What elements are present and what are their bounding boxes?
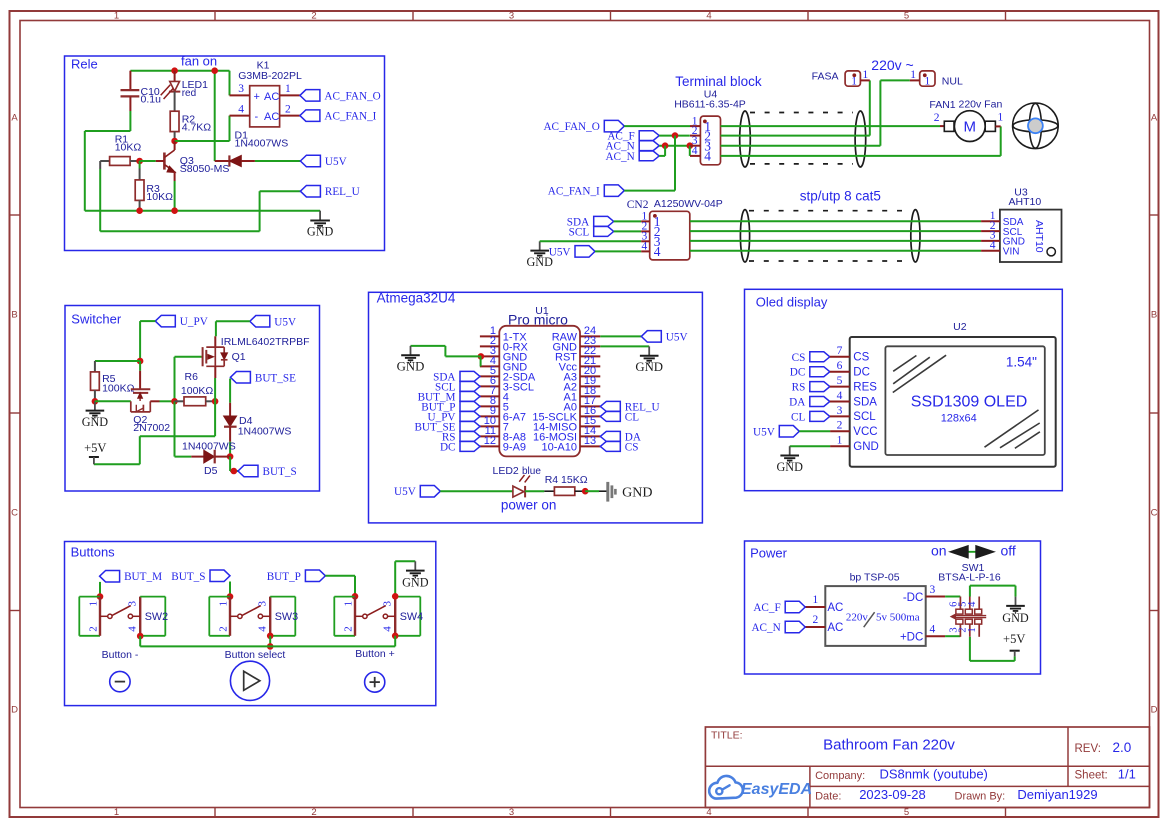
wire: -DC to SW1 <box>945 596 960 598</box>
svg-text:4: 4 <box>704 149 711 164</box>
wire: SDA to CN2 pin1 <box>614 220 642 222</box>
svg-text:CS: CS <box>853 352 869 364</box>
button icon minus <box>110 671 130 691</box>
svg-text:100KΩ: 100KΩ <box>181 385 214 397</box>
svg-text:10KΩ: 10KΩ <box>146 191 173 203</box>
svg-text:VIN: VIN <box>1003 247 1020 258</box>
resistor R1 <box>100 133 141 165</box>
svg-text:2.0: 2.0 <box>1113 740 1132 755</box>
svg-text:5v 500ma: 5v 500ma <box>876 611 920 623</box>
svg-text:4: 4 <box>692 145 698 157</box>
port BUT_M of Buttons <box>100 570 120 582</box>
svg-text:1/1: 1/1 <box>1118 766 1136 781</box>
wire: SCL to CN2 pin2 <box>614 230 642 232</box>
port SCL of CN2 <box>594 226 614 236</box>
svg-text:2N7002: 2N7002 <box>133 422 170 434</box>
resistor R6 <box>175 371 219 406</box>
svg-text:GND: GND <box>82 415 109 429</box>
svg-text:GND: GND <box>402 575 429 589</box>
svg-text:Atmega32U4: Atmega32U4 <box>377 291 456 306</box>
svg-text:-DC: -DC <box>903 592 923 604</box>
port AC_F of Power <box>785 601 805 613</box>
wire: R5 to Q2 gate <box>95 400 131 402</box>
svg-text:1: 1 <box>967 627 978 632</box>
svg-text:B: B <box>1151 310 1157 321</box>
svg-text:1: 1 <box>837 435 843 447</box>
wire: CN2 pin3 to U3 GND <box>690 240 981 242</box>
button icon plus <box>365 672 385 692</box>
node: R5 bottom junction <box>92 398 99 405</box>
svg-text:D: D <box>11 705 18 716</box>
svg-text:Demiyan1929: Demiyan1929 <box>1017 787 1097 802</box>
svg-text:220v Fan: 220v Fan <box>959 98 1003 110</box>
port CL of U2 <box>810 411 830 421</box>
svg-text:4: 4 <box>642 241 648 253</box>
port AC_FAN_I feed <box>604 185 624 197</box>
wire: GND pin of U2 <box>790 445 830 447</box>
svg-text:Bathroom Fan 220v: Bathroom Fan 220v <box>823 736 955 753</box>
svg-text:CL: CL <box>625 411 639 423</box>
svg-text:U5V: U5V <box>325 156 347 168</box>
svg-text:+: + <box>254 91 260 103</box>
wire: U_PV to Q2 drain <box>137 321 156 371</box>
wire: AC_FAN_I riser <box>674 136 676 191</box>
transistor Q1 <box>203 336 310 378</box>
port DC of U1 <box>460 441 480 451</box>
svg-text:AC: AC <box>827 602 843 614</box>
transistor Q2 <box>131 371 170 434</box>
svg-text:BTSA-L-P-16: BTSA-L-P-16 <box>938 572 1001 584</box>
svg-text:3: 3 <box>509 11 514 22</box>
svg-text:CS: CS <box>625 441 639 453</box>
wire: U1 GND pins to ground <box>411 346 485 367</box>
svg-text:3: 3 <box>238 83 244 95</box>
wire: U5V to LED2 <box>440 490 512 492</box>
power +5V of Power <box>1003 632 1025 656</box>
svg-text:13: 13 <box>584 435 596 447</box>
svg-text:DC: DC <box>790 367 806 379</box>
port RS of U2 <box>810 382 830 392</box>
wire: AC_N to U4 pin3 <box>659 142 693 156</box>
svg-text:Button select: Button select <box>225 649 286 661</box>
svg-text:A: A <box>11 113 18 124</box>
wire: D5 anode <box>175 456 192 458</box>
svg-text:AC_FAN_I: AC_FAN_I <box>324 111 376 123</box>
wire: D1 to U5V <box>255 160 301 162</box>
port U5V of U2 <box>779 426 799 438</box>
port CS of U2 <box>810 352 830 362</box>
port U5V of power-on row <box>420 485 440 497</box>
svg-text:GND: GND <box>635 360 663 374</box>
svg-text:2: 2 <box>311 807 316 818</box>
cable sheath cat5 <box>740 210 920 262</box>
Switcher block frame <box>65 306 320 492</box>
svg-text:CS: CS <box>792 352 806 364</box>
svg-text:red: red <box>182 88 196 99</box>
svg-text:A1250WV-04P: A1250WV-04P <box>654 198 723 210</box>
switch SW4 <box>334 597 423 636</box>
svg-text:4.7KΩ: 4.7KΩ <box>182 121 212 133</box>
svg-text:220v: 220v <box>846 611 869 623</box>
resistor R4 <box>544 474 588 495</box>
svg-text:CN2: CN2 <box>627 199 649 211</box>
svg-text:Date:: Date: <box>815 790 841 802</box>
port BUT_S of Buttons <box>210 570 230 582</box>
connector U4 <box>674 89 746 165</box>
LED LED2 <box>493 465 545 497</box>
port SCL of U1 <box>460 381 480 391</box>
port DC of U2 <box>810 367 830 377</box>
fan icon <box>1013 103 1059 149</box>
port DA of U2 <box>810 397 830 407</box>
port U5V of CN2 <box>575 246 595 258</box>
ground GND of Buttons <box>414 561 416 570</box>
wire: Q3 emitter to gnd bus <box>174 181 176 211</box>
svg-text:1: 1 <box>114 807 119 818</box>
svg-text:AC_N: AC_N <box>751 622 780 634</box>
svg-text:U5V: U5V <box>753 426 775 438</box>
svg-text:Switcher: Switcher <box>71 312 122 327</box>
port AC_FAN_O feed <box>604 120 624 132</box>
switch SW1 <box>938 562 1001 637</box>
port AC_FAN_O of Rele <box>300 90 320 102</box>
display module U2 <box>837 321 1056 467</box>
svg-text:+DC: +DC <box>900 631 923 643</box>
wire: SW1 pin2 to +5V <box>970 637 1015 661</box>
svg-text:S8050-MS: S8050-MS <box>180 163 230 175</box>
svg-text:BUT_S: BUT_S <box>263 466 297 478</box>
svg-text:3: 3 <box>837 405 843 417</box>
svg-text:1: 1 <box>998 112 1004 124</box>
Buttons block frame <box>65 542 436 706</box>
svg-text:9-A9: 9-A9 <box>503 441 526 453</box>
svg-text:B: B <box>11 310 17 321</box>
svg-text:3: 3 <box>509 807 514 818</box>
svg-text:220v ~: 220v ~ <box>871 57 913 73</box>
resistor R3 <box>135 161 173 211</box>
svg-text:Oled display: Oled display <box>756 295 828 310</box>
cable sheath 220v <box>740 111 866 167</box>
svg-text:+5V: +5V <box>84 441 106 455</box>
svg-text:1: 1 <box>851 76 857 88</box>
svg-text:1: 1 <box>813 594 819 606</box>
port BUT_P of Buttons <box>305 570 325 582</box>
wire: U4 pin3 to NUL <box>721 80 910 145</box>
svg-text:fan on: fan on <box>181 54 217 69</box>
ground GND of Switcher <box>94 401 96 410</box>
svg-text:BUT_S: BUT_S <box>171 571 205 583</box>
svg-text:U2: U2 <box>953 321 967 333</box>
svg-text:4: 4 <box>967 601 978 607</box>
svg-text:1: 1 <box>114 11 119 22</box>
svg-text:5: 5 <box>904 11 909 22</box>
svg-text:U5V: U5V <box>666 331 688 343</box>
svg-text:4: 4 <box>990 240 996 252</box>
svg-text:2: 2 <box>311 11 316 22</box>
svg-text:1: 1 <box>218 601 230 607</box>
svg-text:2: 2 <box>218 626 230 632</box>
svg-text:Terminal block: Terminal block <box>675 74 762 89</box>
port RS of U1 <box>460 431 480 441</box>
svg-text:IRLML6402TRPBF: IRLML6402TRPBF <box>221 336 310 348</box>
connector NUL <box>910 69 963 88</box>
svg-text:power on: power on <box>501 498 557 513</box>
svg-text:1: 1 <box>343 601 355 607</box>
wire: SW2 pin4 to bus <box>137 633 144 647</box>
svg-text:1.54": 1.54" <box>1006 354 1037 369</box>
port DA of U1 <box>600 431 620 441</box>
svg-text:on: on <box>931 543 947 559</box>
port U_PV of Switcher <box>155 315 175 327</box>
svg-text:AHT10: AHT10 <box>1009 196 1042 208</box>
Power block frame <box>745 541 1041 674</box>
wire: gnd to CN2 pin3 <box>540 240 642 242</box>
wire: SW4 gnd link <box>392 561 415 599</box>
port BUT_SE of U1 <box>460 421 480 431</box>
svg-text:Buttons: Buttons <box>71 544 116 559</box>
svg-text:12: 12 <box>484 435 496 447</box>
wire: Q1 drain to +5V <box>94 378 215 464</box>
port REL_U <box>300 185 320 197</box>
svg-text:2: 2 <box>934 112 940 124</box>
wire: Q2 source to R6 <box>150 400 174 402</box>
svg-text:BUT_M: BUT_M <box>124 571 162 583</box>
port U_PV of U1 <box>460 411 480 421</box>
port SDA of U1 <box>460 371 480 381</box>
svg-text:R4 15KΩ: R4 15KΩ <box>545 474 588 486</box>
svg-text:D5: D5 <box>204 465 218 477</box>
connector FASA <box>812 69 870 88</box>
button icon play <box>230 661 269 700</box>
svg-text:REV:: REV: <box>1075 743 1101 755</box>
switch direction arrows <box>950 546 995 558</box>
svg-text:G3MB-202PL: G3MB-202PL <box>238 70 302 82</box>
svg-text:DS8nmk (youtube): DS8nmk (youtube) <box>880 767 988 782</box>
svg-text:Company:: Company: <box>815 770 865 782</box>
svg-text:LED2: LED2 <box>493 465 519 477</box>
svg-text:A: A <box>1151 113 1158 124</box>
ground GND right of U1 <box>648 346 650 355</box>
svg-text:AC_FAN_O: AC_FAN_O <box>543 121 599 133</box>
port BUT_P of U1 <box>460 401 480 411</box>
port U5V of U1 <box>641 331 661 343</box>
svg-text:GND: GND <box>307 225 334 239</box>
EasyEDA logo <box>709 776 812 799</box>
svg-text:BUT_SE: BUT_SE <box>255 372 296 384</box>
svg-text:2: 2 <box>837 420 843 432</box>
svg-text:AC_F: AC_F <box>753 602 780 614</box>
svg-text:DC: DC <box>440 441 456 453</box>
svg-text:Q1: Q1 <box>232 351 246 363</box>
svg-text:10-A10: 10-A10 <box>542 441 577 453</box>
diode D5 <box>182 441 236 478</box>
svg-text:3: 3 <box>930 584 936 596</box>
svg-text:FAN1: FAN1 <box>929 99 955 111</box>
wire: buttons gnd bus <box>140 645 395 647</box>
svg-text:Button -: Button - <box>102 649 139 661</box>
svg-text:1: 1 <box>863 69 869 81</box>
svg-text:GND: GND <box>776 460 803 474</box>
svg-text:Drawn By:: Drawn By: <box>955 790 1006 802</box>
wire: SW1 pin5 to gnd <box>970 586 1016 597</box>
power +5V of Switcher <box>84 441 106 464</box>
wire: R4 to gnd <box>585 490 607 492</box>
wire: R5 top <box>95 360 140 362</box>
svg-text:1N4007WS: 1N4007WS <box>238 425 292 437</box>
node: R2/Q3 collector junction <box>171 116 229 145</box>
svg-text:128x64: 128x64 <box>941 413 977 425</box>
wire: AC_F to U4 pin2 <box>659 132 690 139</box>
port SDA of CN2 <box>594 216 614 226</box>
svg-text:CL: CL <box>791 411 805 423</box>
wire: R1 to REL_U bus <box>100 161 300 231</box>
svg-text:5: 5 <box>904 807 909 818</box>
wire: U1 GND right <box>600 345 649 347</box>
svg-text:5: 5 <box>837 375 843 387</box>
svg-text:4: 4 <box>238 103 244 115</box>
svg-text:3: 3 <box>381 601 393 607</box>
svg-text:4: 4 <box>126 626 138 632</box>
svg-text:AC_FAN_I: AC_FAN_I <box>548 186 600 198</box>
svg-text:1N4007WS: 1N4007WS <box>182 441 236 453</box>
port AC_N of Power <box>785 621 805 633</box>
wire: CN2 pin2 to U3 SCL <box>690 230 981 232</box>
port CL of U1 <box>600 411 620 421</box>
wire: BUT_P to SW4 pin1 <box>325 576 358 600</box>
svg-text:R6: R6 <box>185 371 199 383</box>
port BUT_S of Switcher <box>238 465 258 477</box>
svg-text:AC: AC <box>264 91 279 103</box>
svg-text:off: off <box>1001 543 1016 559</box>
svg-text:TITLE:: TITLE: <box>711 730 743 742</box>
port AC_N lower <box>639 151 659 161</box>
svg-text:-: - <box>255 111 259 123</box>
svg-text:REL_U: REL_U <box>325 186 360 198</box>
wire: BUT_SE to D4 <box>229 379 231 403</box>
svg-text:U5V: U5V <box>549 246 571 258</box>
svg-text:AHT10: AHT10 <box>1033 220 1045 253</box>
svg-text:SCL: SCL <box>569 226 590 238</box>
port U5V of Rele <box>300 155 320 167</box>
svg-text:7: 7 <box>837 345 843 357</box>
svg-text:VCC: VCC <box>853 426 877 438</box>
svg-text:2023-09-28: 2023-09-28 <box>859 787 926 802</box>
svg-text:RES: RES <box>853 381 877 393</box>
svg-text:M: M <box>964 119 977 136</box>
svg-text:1: 1 <box>88 601 100 607</box>
svg-text:U_PV: U_PV <box>180 316 208 328</box>
svg-text:EasyEDA: EasyEDA <box>741 781 812 798</box>
svg-text:4: 4 <box>706 807 711 818</box>
wire: U5V to Q1 source <box>216 321 250 336</box>
svg-text:GND: GND <box>397 360 425 374</box>
resistor R2 <box>170 111 211 141</box>
svg-text:6: 6 <box>837 360 843 372</box>
svg-text:3: 3 <box>126 601 138 607</box>
transistor Q3 <box>164 141 229 181</box>
svg-text:0.1u: 0.1u <box>141 94 162 106</box>
port U5V of Switcher <box>250 316 270 328</box>
wire: U4 pin2 to FASA <box>721 80 870 135</box>
svg-text:SCL: SCL <box>853 411 876 423</box>
motor FAN1 <box>929 98 1003 141</box>
IC U1 Pro micro <box>480 305 600 456</box>
Rele block frame <box>65 56 385 251</box>
wire: U4 pin4 to FAN1 pin1 <box>721 126 1001 155</box>
svg-text:SSD1309 OLED: SSD1309 OLED <box>911 393 1028 410</box>
port BUT_M of U1 <box>460 391 480 401</box>
svg-text:2: 2 <box>343 626 355 632</box>
svg-text:1: 1 <box>285 83 291 95</box>
wire: U5V to CN2 pin4 <box>595 250 641 252</box>
wire: LED1 cathode to R2 <box>174 92 176 112</box>
svg-text:C: C <box>11 508 18 519</box>
svg-text:C: C <box>1151 508 1158 519</box>
power module bp TSP-05 <box>805 571 945 646</box>
svg-text:+5V: +5V <box>1003 632 1025 646</box>
wire: U5V to VCC <box>799 430 830 432</box>
svg-text:Power: Power <box>750 546 788 561</box>
ground GND of Power <box>1015 597 1017 606</box>
wire: fan-on top net <box>130 71 229 161</box>
svg-text:4: 4 <box>930 624 936 636</box>
svg-text:1: 1 <box>910 69 916 81</box>
svg-text:2: 2 <box>285 103 291 115</box>
wire: U2 pin stubs <box>830 357 850 446</box>
svg-text:GND: GND <box>1002 611 1029 625</box>
svg-text:AC_N: AC_N <box>605 151 634 163</box>
svg-text:Rele: Rele <box>71 56 98 71</box>
port AC_N upper <box>639 141 659 151</box>
svg-text:DC: DC <box>853 367 870 379</box>
svg-text:DA: DA <box>789 397 805 409</box>
svg-text:HB611-6.35-4P: HB611-6.35-4P <box>674 99 746 111</box>
svg-text:bp TSP-05: bp TSP-05 <box>850 571 900 583</box>
wire: SW4 pin4 to bus <box>392 633 399 647</box>
node: Q3 base junction <box>136 158 164 165</box>
svg-text:U5V: U5V <box>274 316 296 328</box>
svg-text:RS: RS <box>792 382 806 394</box>
svg-text:4: 4 <box>654 244 661 259</box>
svg-text:AC_FAN_O: AC_FAN_O <box>324 90 380 102</box>
title block <box>705 727 1149 808</box>
wire: Q1 gate net <box>171 357 202 457</box>
diode D4 <box>224 403 292 442</box>
svg-text:100KΩ: 100KΩ <box>102 382 135 394</box>
connector CN2 <box>627 198 723 260</box>
switch SW3 <box>209 597 298 636</box>
Atmega32U4 block frame <box>369 291 703 523</box>
svg-text:1N4007WS: 1N4007WS <box>235 138 289 150</box>
svg-text:4: 4 <box>381 626 393 632</box>
svg-text:10KΩ: 10KΩ <box>115 141 142 153</box>
wire: BUT_M to SW2 pin1 <box>97 582 104 600</box>
svg-text:1: 1 <box>925 76 931 88</box>
Oled display block frame <box>745 289 1063 490</box>
wire: AC_FAN_O to U4 pin1 <box>624 125 690 127</box>
svg-text:AC: AC <box>264 111 279 123</box>
port REL_U of U1 <box>600 401 620 411</box>
wire: U4 pin1 to FAN1 pin2 <box>721 125 941 127</box>
wire: CN2 pin1 to U3 SDA <box>690 220 981 222</box>
svg-text:Sheet:: Sheet: <box>1075 770 1108 782</box>
svg-text:SW4: SW4 <box>400 611 423 623</box>
svg-text:FASA: FASA <box>812 70 839 82</box>
svg-text:SDA: SDA <box>853 396 877 408</box>
svg-text:AC: AC <box>827 622 843 634</box>
port AC_FAN_I of Rele <box>300 110 320 122</box>
ground sgnd of power-on <box>608 482 653 502</box>
